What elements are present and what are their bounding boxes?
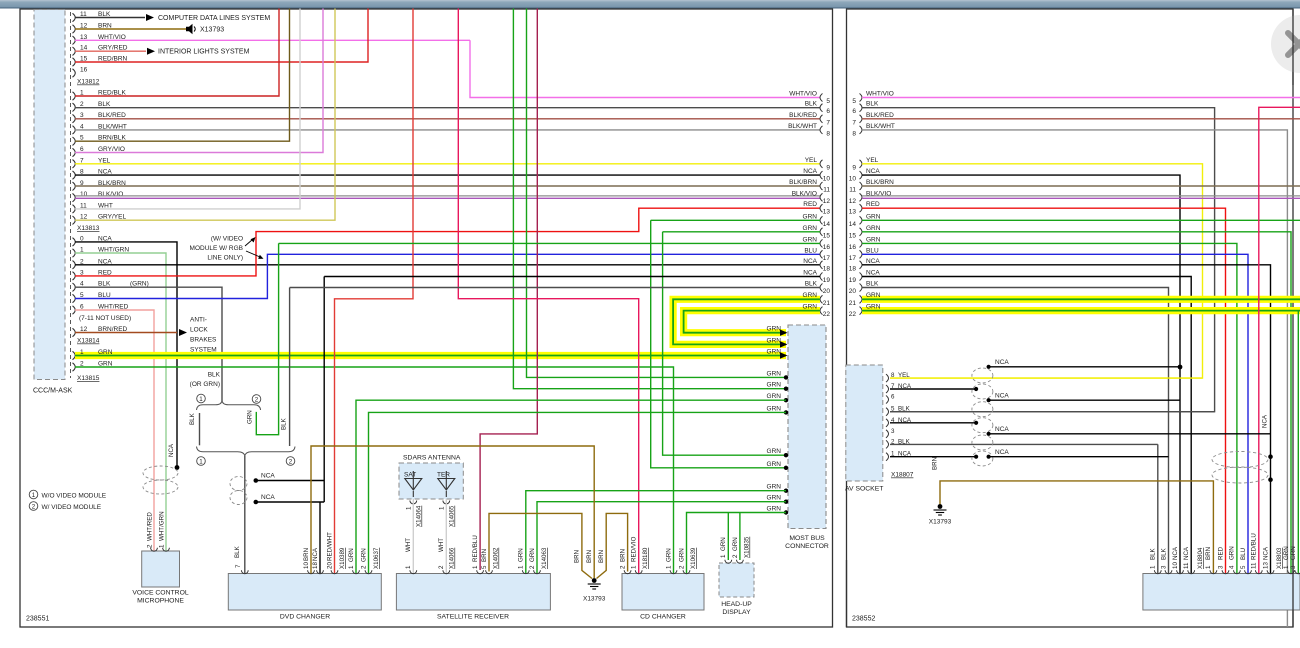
svg-text:GRN: GRN <box>247 410 254 424</box>
svg-text:GRN: GRN <box>767 370 782 377</box>
svg-text:NCA: NCA <box>803 270 817 277</box>
svg-text:13: 13 <box>1262 562 1269 569</box>
svg-text:4: 4 <box>1229 565 1236 569</box>
svg-text:GRN: GRN <box>866 303 881 310</box>
svg-text:BLK/RED: BLK/RED <box>866 112 894 119</box>
svg-text:TER: TER <box>437 472 450 479</box>
svg-text:GRN: GRN <box>518 548 525 562</box>
svg-text:BLK: BLK <box>805 101 818 108</box>
svg-text:NCA: NCA <box>866 168 880 175</box>
svg-text:NCA: NCA <box>866 258 880 265</box>
svg-text:1: 1 <box>199 458 203 465</box>
svg-text:GRN: GRN <box>732 537 739 551</box>
svg-text:1: 1 <box>518 565 525 569</box>
svg-text:X14066: X14066 <box>449 547 456 569</box>
svg-text:6: 6 <box>852 108 856 115</box>
svg-text:5: 5 <box>1240 565 1247 569</box>
svg-text:11: 11 <box>823 187 830 194</box>
svg-text:GRN: GRN <box>666 548 673 562</box>
svg-text:22: 22 <box>849 311 857 318</box>
svg-text:8: 8 <box>852 130 856 137</box>
svg-text:1: 1 <box>631 565 638 569</box>
svg-text:NCA: NCA <box>866 270 880 277</box>
svg-text:BRN: BRN <box>303 548 310 561</box>
svg-text:WHT/GRN: WHT/GRN <box>159 511 166 541</box>
svg-text:BRN: BRN <box>932 457 939 470</box>
svg-text:GRN: GRN <box>866 236 881 243</box>
svg-text:10: 10 <box>1172 562 1179 569</box>
svg-text:SDARS ANTENNA: SDARS ANTENNA <box>403 455 461 462</box>
svg-text:9: 9 <box>826 164 830 171</box>
svg-text:18: 18 <box>849 265 857 272</box>
svg-text:BLK: BLK <box>189 412 196 425</box>
svg-text:20: 20 <box>823 288 831 295</box>
svg-text:BLK: BLK <box>805 281 818 288</box>
svg-text:2: 2 <box>32 503 36 510</box>
svg-text:GRN: GRN <box>866 292 881 299</box>
svg-text:X13793: X13793 <box>929 519 952 526</box>
svg-text:AV SOCKET: AV SOCKET <box>845 486 883 493</box>
svg-text:GRN: GRN <box>767 484 782 491</box>
svg-text:GRN: GRN <box>767 448 782 455</box>
svg-text:X14065: X14065 <box>449 505 456 527</box>
svg-text:3: 3 <box>80 112 84 119</box>
svg-text:2: 2 <box>147 544 154 548</box>
svg-text:CD CHANGER: CD CHANGER <box>640 614 686 621</box>
svg-text:BRN: BRN <box>481 549 488 562</box>
svg-text:BLK/WHT: BLK/WHT <box>788 123 817 130</box>
svg-text:X13815: X13815 <box>77 375 100 382</box>
svg-text:1: 1 <box>405 565 412 569</box>
svg-text:2: 2 <box>620 565 627 569</box>
svg-text:X18803: X18803 <box>1276 547 1283 569</box>
svg-text:NCA: NCA <box>803 258 817 265</box>
svg-text:11: 11 <box>1251 562 1258 569</box>
svg-text:X18807: X18807 <box>891 472 914 479</box>
svg-text:10: 10 <box>823 176 831 183</box>
svg-text:X10389: X10389 <box>339 547 346 569</box>
svg-text:NCA: NCA <box>261 494 275 501</box>
svg-text:RED: RED <box>866 201 880 208</box>
svg-text:DISPLAY: DISPLAY <box>722 609 751 616</box>
svg-text:11: 11 <box>849 187 856 194</box>
svg-text:(W/ VIDEO: (W/ VIDEO <box>211 236 243 243</box>
svg-text:1: 1 <box>1150 565 1157 569</box>
svg-text:X18804: X18804 <box>1197 547 1204 569</box>
svg-text:NCA: NCA <box>995 449 1009 456</box>
svg-text:19: 19 <box>849 277 857 284</box>
svg-text:GRN: GRN <box>767 382 782 389</box>
svg-text:7: 7 <box>852 119 856 126</box>
svg-text:WHT/VIO: WHT/VIO <box>789 91 817 98</box>
svg-text:17: 17 <box>849 255 857 262</box>
svg-text:GRN: GRN <box>767 393 782 400</box>
svg-text:BLK: BLK <box>208 372 221 379</box>
svg-text:20: 20 <box>849 288 857 295</box>
svg-text:GRN: GRN <box>720 537 727 551</box>
svg-text:BLK: BLK <box>281 417 288 430</box>
svg-text:BRN: BRN <box>574 550 581 563</box>
svg-text:RED/BLU: RED/BLU <box>1251 533 1258 560</box>
svg-text:WHT/RED: WHT/RED <box>147 512 154 541</box>
svg-text:RED/VIO: RED/VIO <box>631 536 638 562</box>
svg-text:2: 2 <box>361 565 368 569</box>
svg-text:X10637: X10637 <box>373 547 380 569</box>
svg-text:CONNECTOR: CONNECTOR <box>785 543 829 550</box>
svg-text:CCC/M-ASK: CCC/M-ASK <box>33 388 73 395</box>
svg-text:NCA: NCA <box>995 392 1009 399</box>
svg-text:1: 1 <box>32 492 36 499</box>
svg-text:2: 2 <box>529 565 536 569</box>
svg-text:21: 21 <box>849 300 857 307</box>
svg-text:MODULE W/ RGB: MODULE W/ RGB <box>190 245 243 252</box>
svg-text:238551: 238551 <box>26 616 49 623</box>
svg-text:10: 10 <box>80 191 88 198</box>
svg-text:SATELLITE RECEIVER: SATELLITE RECEIVER <box>437 614 509 621</box>
svg-text:20: 20 <box>327 562 334 569</box>
svg-text:SAT: SAT <box>404 472 416 479</box>
svg-text:BLK: BLK <box>866 101 879 108</box>
svg-text:YEL: YEL <box>866 157 879 164</box>
svg-text:2: 2 <box>732 554 739 558</box>
svg-text:GRN: GRN <box>679 548 686 562</box>
svg-text:BRN: BRN <box>1205 547 1212 560</box>
svg-text:NCA: NCA <box>995 426 1009 433</box>
svg-text:18: 18 <box>823 265 831 272</box>
svg-text:WHT/VIO: WHT/VIO <box>866 91 894 98</box>
svg-text:GRN: GRN <box>348 548 355 562</box>
svg-text:1: 1 <box>666 565 673 569</box>
svg-text:2: 2 <box>289 458 293 465</box>
svg-text:MOST BUS: MOST BUS <box>789 535 825 542</box>
svg-text:WHT: WHT <box>405 538 412 552</box>
svg-text:RED/BLU: RED/BLU <box>472 535 479 562</box>
svg-text:9: 9 <box>852 164 856 171</box>
svg-text:3: 3 <box>1160 565 1167 569</box>
svg-text:BLK/VIO: BLK/VIO <box>792 190 817 197</box>
svg-text:X14063: X14063 <box>541 547 548 569</box>
svg-text:22: 22 <box>823 311 831 318</box>
svg-text:DVD CHANGER: DVD CHANGER <box>280 614 330 621</box>
svg-text:GRN: GRN <box>803 292 818 299</box>
svg-text:1: 1 <box>406 506 413 510</box>
svg-text:GRN: GRN <box>803 213 818 220</box>
svg-text:GRN: GRN <box>866 213 881 220</box>
svg-text:X13812: X13812 <box>77 79 100 86</box>
svg-text:(OR GRN): (OR GRN) <box>190 381 220 388</box>
svg-text:16: 16 <box>80 67 88 74</box>
svg-text:1: 1 <box>1283 565 1290 569</box>
svg-text:NCA: NCA <box>1262 546 1269 560</box>
svg-text:X10835: X10835 <box>744 536 751 558</box>
svg-text:BLK: BLK <box>98 101 111 108</box>
svg-text:COMPUTER DATA LINES SYSTEM: COMPUTER DATA LINES SYSTEM <box>158 15 270 22</box>
svg-text:X13814: X13814 <box>77 338 100 345</box>
svg-text:NCA: NCA <box>312 547 319 561</box>
svg-text:BLK/VIO: BLK/VIO <box>98 191 123 198</box>
svg-text:17: 17 <box>823 255 831 262</box>
svg-text:BLK/RED: BLK/RED <box>98 112 126 119</box>
svg-text:X13813: X13813 <box>77 225 100 232</box>
svg-text:NCA: NCA <box>1262 414 1269 428</box>
svg-text:GRN: GRN <box>1229 546 1236 560</box>
svg-text:BRN: BRN <box>598 550 605 563</box>
svg-text:15: 15 <box>849 232 857 239</box>
svg-text:8: 8 <box>826 130 830 137</box>
svg-text:GRN: GRN <box>767 405 782 412</box>
svg-text:14: 14 <box>849 221 857 228</box>
svg-text:GRN: GRN <box>1290 546 1297 560</box>
svg-text:1: 1 <box>720 554 727 558</box>
svg-text:BLK: BLK <box>866 281 879 288</box>
svg-text:BLU: BLU <box>1240 548 1247 560</box>
svg-text:BLK/BRN: BLK/BRN <box>866 179 894 186</box>
svg-text:14: 14 <box>823 221 831 228</box>
svg-text:BLK/RED: BLK/RED <box>789 112 817 119</box>
svg-text:6: 6 <box>826 108 830 115</box>
svg-text:GRN: GRN <box>529 548 536 562</box>
svg-text:21: 21 <box>823 300 831 307</box>
svg-text:5: 5 <box>481 565 488 569</box>
svg-text:1: 1 <box>348 565 355 569</box>
svg-text:BLK: BLK <box>1150 547 1157 560</box>
svg-text:BLK: BLK <box>1160 547 1167 560</box>
svg-text:238552: 238552 <box>852 616 875 623</box>
svg-text:16: 16 <box>823 244 831 251</box>
svg-text:INTERIOR LIGHTS SYSTEM: INTERIOR LIGHTS SYSTEM <box>158 49 250 56</box>
svg-text:7: 7 <box>235 564 242 568</box>
svg-text:X18180: X18180 <box>642 547 649 569</box>
svg-text:NCA: NCA <box>1172 546 1179 560</box>
svg-text:GRN: GRN <box>767 349 782 356</box>
svg-text:GRN: GRN <box>767 461 782 468</box>
svg-text:LOCK: LOCK <box>190 327 208 334</box>
svg-text:RED/WHT: RED/WHT <box>327 532 334 561</box>
svg-text:BRN: BRN <box>586 550 593 563</box>
svg-text:GRN: GRN <box>803 225 818 232</box>
svg-text:2: 2 <box>255 396 259 403</box>
svg-text:GRN: GRN <box>803 236 818 243</box>
svg-text:12: 12 <box>823 198 831 205</box>
svg-text:NCA: NCA <box>168 443 175 457</box>
svg-text:BRAKES: BRAKES <box>190 337 217 344</box>
svg-text:18: 18 <box>312 562 319 569</box>
svg-text:(7-11 NOT USED): (7-11 NOT USED) <box>79 315 131 322</box>
svg-text:1: 1 <box>439 506 446 510</box>
svg-text:3: 3 <box>1217 565 1224 569</box>
svg-text:GRN: GRN <box>1283 546 1290 560</box>
svg-text:16: 16 <box>849 244 857 251</box>
svg-text:2: 2 <box>80 101 84 108</box>
svg-text:W/O VIDEO MODULE: W/O VIDEO MODULE <box>42 493 107 500</box>
svg-text:LINE ONLY): LINE ONLY) <box>207 255 243 262</box>
svg-text:10: 10 <box>303 562 310 569</box>
svg-text:X13793: X13793 <box>583 596 606 603</box>
svg-text:GRN: GRN <box>767 337 782 344</box>
svg-text:WHT: WHT <box>438 538 445 552</box>
svg-text:BLK/BRN: BLK/BRN <box>789 179 817 186</box>
svg-text:VOICE CONTROL: VOICE CONTROL <box>132 590 188 597</box>
svg-text:13: 13 <box>823 209 831 216</box>
svg-text:NCA: NCA <box>261 473 275 480</box>
svg-text:11: 11 <box>1183 562 1190 569</box>
svg-text:13: 13 <box>849 209 857 216</box>
svg-text:15: 15 <box>823 232 831 239</box>
svg-text:GRN: GRN <box>767 506 782 513</box>
svg-text:GRN: GRN <box>98 349 113 356</box>
svg-text:X14062: X14062 <box>493 547 500 569</box>
svg-text:NCA: NCA <box>995 359 1009 366</box>
svg-text:X14064: X14064 <box>416 505 423 527</box>
svg-text:19: 19 <box>823 277 831 284</box>
svg-text:BLU: BLU <box>804 247 817 254</box>
svg-text:2: 2 <box>438 565 445 569</box>
svg-text:HEAD-UP: HEAD-UP <box>721 601 752 608</box>
svg-text:W/ VIDEO MODULE: W/ VIDEO MODULE <box>42 504 102 511</box>
svg-text:BLU: BLU <box>866 247 879 254</box>
svg-text:5: 5 <box>852 98 856 105</box>
svg-text:RED: RED <box>803 201 817 208</box>
svg-text:NCA: NCA <box>1183 546 1190 560</box>
svg-text:7: 7 <box>826 119 830 126</box>
svg-text:RED: RED <box>1217 546 1224 560</box>
svg-text:GRN: GRN <box>803 303 818 310</box>
svg-text:ANTI-: ANTI- <box>190 317 207 324</box>
svg-text:1: 1 <box>159 544 166 548</box>
svg-text:X13793: X13793 <box>200 27 224 34</box>
svg-text:1: 1 <box>199 396 203 403</box>
svg-text:BLK/WHT: BLK/WHT <box>866 123 895 130</box>
svg-text:BLK: BLK <box>234 545 241 558</box>
svg-text:1: 1 <box>80 349 84 356</box>
svg-text:GRN: GRN <box>361 548 368 562</box>
svg-text:10: 10 <box>849 176 857 183</box>
svg-text:1: 1 <box>472 565 479 569</box>
svg-text:YEL: YEL <box>805 157 818 164</box>
svg-text:5: 5 <box>826 98 830 105</box>
svg-text:GRN: GRN <box>866 225 881 232</box>
svg-text:GRN: GRN <box>767 326 782 333</box>
svg-text:6: 6 <box>891 394 895 401</box>
svg-text:12: 12 <box>849 198 857 205</box>
svg-text:2: 2 <box>679 565 686 569</box>
svg-text:GRN: GRN <box>767 495 782 502</box>
svg-text:X10639: X10639 <box>690 547 697 569</box>
svg-text:3: 3 <box>891 428 895 435</box>
svg-text:BRN: BRN <box>620 549 627 562</box>
svg-text:NCA: NCA <box>803 168 817 175</box>
svg-text:1: 1 <box>1205 565 1212 569</box>
svg-text:MICROPHONE: MICROPHONE <box>137 598 184 605</box>
